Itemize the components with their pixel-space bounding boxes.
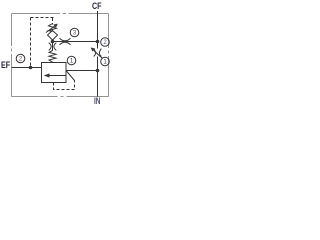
spool box <box>42 63 67 83</box>
relief spring zigzag <box>49 24 57 32</box>
svg-text:IN: IN <box>94 96 101 106</box>
wire horizontal pilot-to-CF <box>53 41 98 43</box>
svg-text:EF: EF <box>1 60 11 70</box>
enclosure phantom border left <box>11 14 13 97</box>
svg-text:CF: CF <box>92 1 102 11</box>
spool flow arrow shaft <box>48 75 66 77</box>
balloon 1a circle <box>67 56 76 65</box>
wire CF/IN vertical mid <box>97 42 99 49</box>
wire IN vertical lower <box>97 57 99 97</box>
node junction dot left <box>51 40 55 44</box>
pilot dashed under box <box>54 80 75 90</box>
enclosure phantom border top <box>12 13 109 15</box>
wire spool outlet to CF line <box>66 70 98 72</box>
compensator spring <box>49 51 56 63</box>
relief poppet diamond <box>48 31 58 41</box>
wire CF vertical upper <box>97 11 99 42</box>
node junction dot outlet <box>96 69 100 73</box>
orifice fixed vertical <box>49 43 57 51</box>
balloon 1b circle <box>101 57 110 66</box>
balloon 4 circle <box>16 54 25 63</box>
pilot dashed drop to relief <box>52 18 54 25</box>
wire EF horizontal <box>12 67 42 69</box>
balloon 2 circle <box>101 38 110 47</box>
pilot diagonal solid <box>66 71 75 81</box>
orifice variable arcs <box>94 49 102 57</box>
node junction dot right <box>96 40 100 44</box>
enclosure phantom border bottom <box>12 96 109 98</box>
balloon 3 circle <box>70 28 79 37</box>
pilot dashed horizontal top <box>31 17 54 19</box>
spool flow arrow head <box>44 73 50 77</box>
orifice variable arrow <box>94 50 103 58</box>
pilot dashed vertical left <box>30 18 32 67</box>
node junction dot EF <box>29 66 33 70</box>
relief spring adjust arrow <box>46 26 55 33</box>
enclosure phantom border right <box>108 14 110 97</box>
wire relief to compensator spring <box>52 42 54 51</box>
orifice fixed horizontal <box>60 38 71 45</box>
